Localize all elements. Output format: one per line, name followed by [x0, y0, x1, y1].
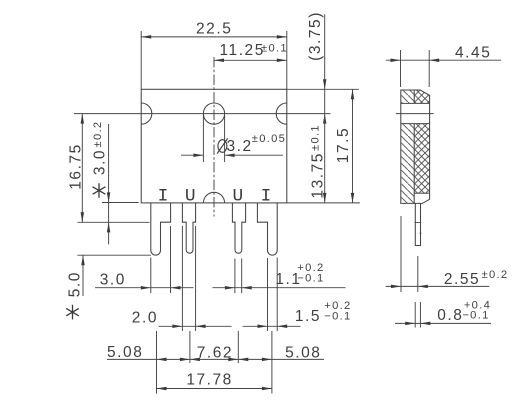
svg-text:5.0: 5.0 — [67, 271, 84, 297]
svg-text:±0.05: ±0.05 — [252, 133, 286, 145]
svg-text:2.0: 2.0 — [132, 309, 158, 326]
dimension 2.55 base thickness — [386, 216, 490, 292]
svg-text:−0.1: −0.1 — [297, 273, 324, 285]
bottom edge extension line — [287, 202, 360, 204]
side view pin — [414, 203, 421, 245]
pin 2 (U) — [182, 203, 195, 253]
asterisk marker upper — [93, 183, 106, 198]
svg-text:1.5: 1.5 — [295, 308, 321, 325]
svg-text:0.8: 0.8 — [437, 307, 463, 324]
left edge notch — [141, 103, 152, 124]
svg-text:±0.2: ±0.2 — [482, 269, 509, 281]
dimension 3.0 pin width — [95, 226, 194, 293]
pin 4 (I) — [257, 203, 277, 255]
horizontal centerline through hole — [74, 113, 330, 115]
dimension 3.0 shoulder length — [102, 124, 139, 244]
pin 1 (I) — [151, 203, 171, 255]
side view body outline — [401, 90, 430, 203]
dimension hole diameter 3.2 — [181, 116, 283, 163]
top edge extension line — [287, 88, 359, 90]
svg-text:±0.2: ±0.2 — [92, 121, 104, 148]
svg-text:13.75: 13.75 — [309, 152, 326, 199]
svg-text:17.5: 17.5 — [335, 127, 352, 163]
svg-text:22.5: 22.5 — [196, 20, 232, 37]
dimension 2.0 pin base width — [159, 226, 232, 331]
svg-text:11.25: 11.25 — [220, 42, 265, 59]
dimension 11.25 half width — [214, 59, 287, 61]
side view mold hatch (left, diagonal) — [401, 90, 414, 203]
svg-text:16.75: 16.75 — [67, 143, 84, 190]
vertical centerline — [213, 57, 215, 217]
dimension 1.1 sense pin width — [213, 259, 346, 294]
dimension 16.75 overall — [77, 114, 149, 223]
dimension (3.75) tab reference — [324, 14, 326, 113]
svg-text:3.2: 3.2 — [226, 138, 252, 155]
dimension 4.45 side width — [386, 50, 501, 87]
svg-text:−0.1: −0.1 — [462, 310, 489, 322]
svg-text:U: U — [232, 186, 243, 206]
dimension 0.8 pin thickness — [395, 302, 491, 328]
dimension pin pitch 5.08 7.62 5.08 — [107, 331, 324, 394]
dimension 17.5 body height — [352, 89, 354, 203]
dimension 22.5 top width — [141, 31, 287, 89]
svg-text:7.62: 7.62 — [197, 344, 233, 361]
side view hatch boundary — [414, 192, 429, 194]
svg-text:±0.1: ±0.1 — [261, 42, 288, 54]
pin labels I U U I — [158, 186, 272, 206]
dimension 1.5 pin width — [243, 258, 301, 332]
dimension 5.0 pin length — [77, 255, 151, 296]
right edge notch — [276, 103, 287, 124]
side view centerline — [396, 113, 434, 115]
svg-text:I: I — [158, 186, 169, 206]
svg-text:±0.1: ±0.1 — [310, 124, 322, 151]
pin 3 (U) — [232, 203, 245, 253]
dimension 17.78 overall pitch — [157, 388, 272, 390]
svg-text:17.78: 17.78 — [186, 371, 233, 388]
side view metal/mold divider — [413, 90, 415, 203]
dimension 13.75 hole height — [324, 114, 326, 203]
svg-text:3.0: 3.0 — [91, 149, 108, 175]
svg-text:5.08: 5.08 — [285, 345, 321, 362]
bottom edge notch — [203, 192, 224, 203]
svg-text:U: U — [185, 186, 196, 206]
svg-text:4.45: 4.45 — [455, 44, 491, 61]
side view hole band lines — [401, 103, 430, 123]
svg-text:3.0: 3.0 — [100, 271, 126, 288]
svg-text:2.55: 2.55 — [444, 271, 480, 288]
side view metal hatch (right, cross) — [414, 90, 429, 193]
package body outline front view — [141, 89, 287, 203]
mounting hole — [203, 103, 224, 124]
svg-text:5.08: 5.08 — [107, 344, 143, 361]
svg-text:−0.1: −0.1 — [324, 311, 351, 323]
asterisk marker lower — [66, 305, 79, 320]
svg-text:(3.75): (3.75) — [307, 11, 324, 61]
svg-text:I: I — [261, 186, 272, 206]
